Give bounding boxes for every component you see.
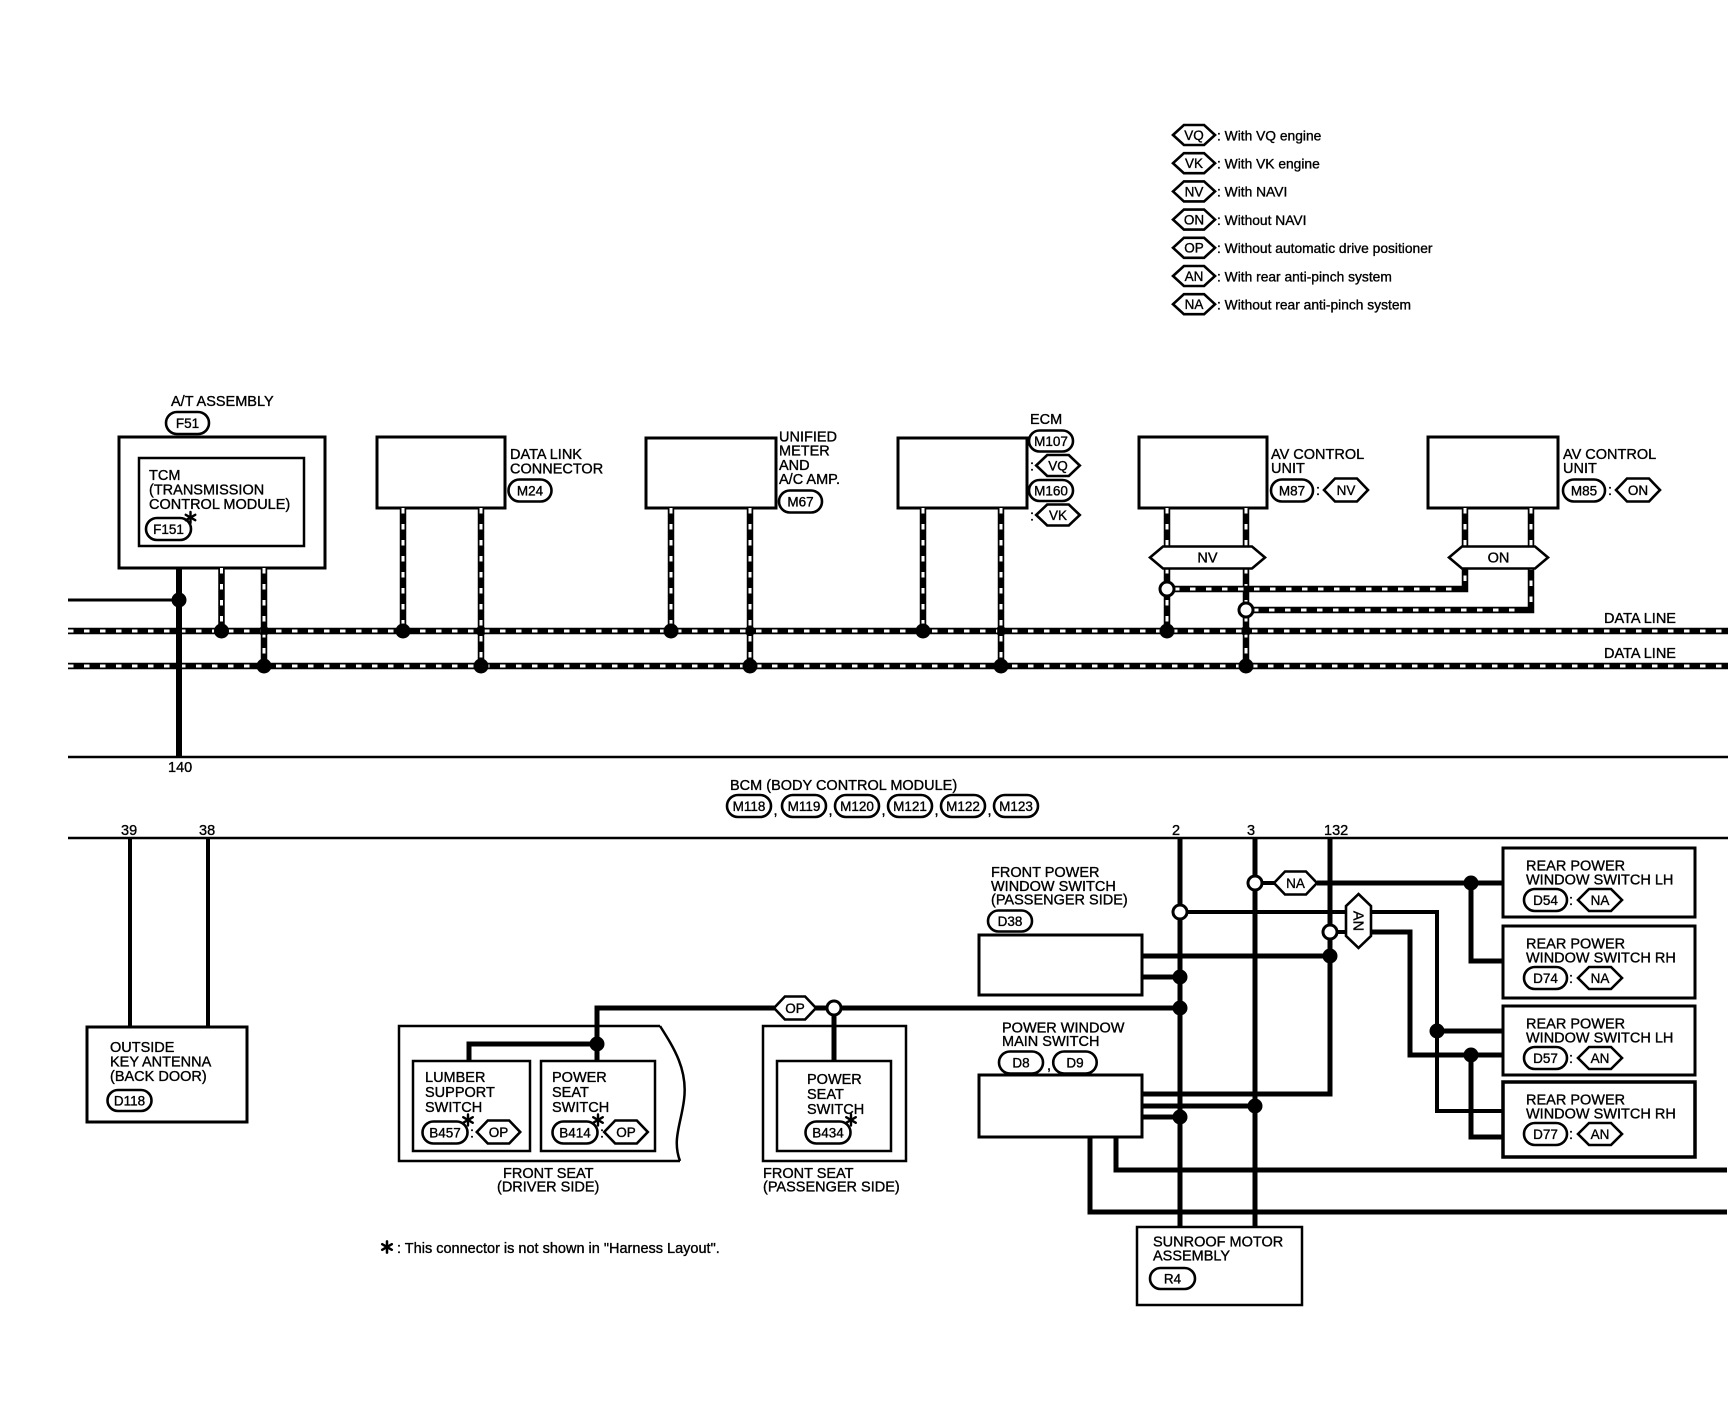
svg-text:F151: F151	[153, 522, 184, 537]
svg-text::: :	[1569, 1127, 1573, 1143]
svg-text::: :	[1608, 483, 1612, 499]
svg-text:2: 2	[1172, 823, 1180, 839]
module label BCM (BODY CONTROL MODULE) M118-M123	[727, 778, 1038, 819]
wire branch down to D74	[1471, 883, 1503, 961]
wire branch to AV unit M85 pin2 (shielded)	[1253, 568, 1531, 610]
wire TCM to DATA LINE 1 (shielded)	[218, 568, 225, 631]
svg-text:D74: D74	[1533, 971, 1558, 986]
component box UNIFIED METER AND A/C AMP M67	[646, 430, 840, 513]
DATA LINE 1 label	[1604, 611, 1676, 627]
svg-text:: With NAVI: : With NAVI	[1217, 185, 1287, 200]
svg-text:WINDOW SWITCH RH: WINDOW SWITCH RH	[1526, 1107, 1676, 1123]
junction D38 / pin 2 wire	[1173, 970, 1188, 985]
wire AV unit M87 pin2 to NV banner (shielded)	[1243, 508, 1250, 547]
wire D38 to pin 132	[1142, 954, 1330, 959]
node circle option split seat branch	[827, 1001, 841, 1015]
wire BCM pin 39 to antenna	[128, 838, 132, 1027]
wire AV unit M85 pin2 to ON banner (shielded)	[1528, 508, 1535, 547]
svg-text:,: ,	[935, 803, 939, 819]
wire BCM pin 38 to antenna	[206, 838, 210, 1027]
wire stub from left at node	[68, 599, 179, 602]
junction AV / DATA LINE 1	[1160, 624, 1175, 639]
svg-text:ECM: ECM	[1030, 412, 1062, 428]
svg-text::: :	[1030, 459, 1034, 475]
svg-text:M67: M67	[787, 494, 813, 509]
wire main switch to pin 2	[1142, 1115, 1180, 1120]
svg-text:D8: D8	[1012, 1055, 1029, 1070]
svg-text:NV: NV	[1185, 184, 1204, 199]
svg-text:M123: M123	[999, 799, 1033, 814]
svg-text:SWITCH: SWITCH	[425, 1100, 482, 1116]
svg-text:ASSEMBLY: ASSEMBLY	[1153, 1249, 1230, 1265]
svg-text:39: 39	[121, 823, 137, 839]
bus DATA LINE 1 (shielded twisted line)	[68, 628, 1728, 635]
wire BCM pin 2 to sunroof motor	[1178, 838, 1183, 1227]
junction ECM / DATA LINE 1	[916, 624, 931, 639]
option banner NV	[1150, 547, 1265, 569]
svg-text:,: ,	[988, 803, 992, 819]
svg-text:SEAT: SEAT	[552, 1085, 589, 1101]
svg-text:: Without automatic drive posi: : Without automatic drive positioner	[1217, 241, 1433, 256]
wire ECM to DATA LINE 2 (shielded)	[997, 508, 1005, 666]
svg-text:CONTROL MODULE): CONTROL MODULE)	[149, 497, 290, 513]
svg-text:CONNECTOR: CONNECTOR	[510, 462, 603, 478]
component box REAR POWER WINDOW SWITCH LH D54 (NA)	[1503, 848, 1695, 917]
svg-text:D118: D118	[114, 1093, 145, 1108]
component box POWER SEAT SWITCH B434 (passenger)	[777, 1061, 891, 1151]
option banner AN (vertical)	[1346, 894, 1371, 948]
junction TCM / DATA LINE 2	[257, 659, 272, 674]
module TCM (TRANSMISSION CONTROL MODULE) F151	[139, 458, 304, 546]
svg-text::: :	[470, 1126, 474, 1142]
svg-text:DATA LINE: DATA LINE	[1604, 611, 1676, 627]
svg-text:NV: NV	[1337, 483, 1356, 498]
wire AN banner to D57 lower	[1371, 932, 1503, 1055]
wire pin-132 branch to AN banner	[1337, 930, 1348, 934]
svg-text:POWER: POWER	[807, 1072, 862, 1088]
wire to lumber support switch	[469, 1044, 597, 1061]
svg-text:: With VQ engine: : With VQ engine	[1217, 128, 1322, 143]
component box LUMBER SUPPORT SWITCH B457	[413, 1061, 530, 1151]
wire main switch output lower-left	[1090, 1137, 1727, 1212]
wire NV banner to node circle 2 (shielded)	[1242, 568, 1250, 666]
svg-text:SWITCH: SWITCH	[552, 1100, 609, 1116]
svg-text:B457: B457	[429, 1125, 461, 1140]
svg-text:ON: ON	[1184, 212, 1204, 227]
junction node on pin-140 wire	[172, 593, 187, 608]
wire to power seat switch B414	[595, 1044, 600, 1061]
legend ON: Without NAVI	[1173, 210, 1306, 230]
wire D38 to pin 2	[1142, 975, 1180, 980]
component box DATA LINK CONNECTOR M24	[377, 437, 603, 508]
pin 3 label	[1247, 823, 1255, 839]
component box ECM M107/M160	[898, 412, 1080, 526]
component box POWER SEAT SWITCH B414 (driver)	[541, 1061, 655, 1151]
svg-text:D57: D57	[1533, 1051, 1558, 1066]
svg-text:AN: AN	[1350, 911, 1366, 931]
svg-text:R4: R4	[1164, 1271, 1182, 1286]
svg-text:: Without NAVI: : Without NAVI	[1217, 213, 1306, 228]
connector label A/T ASSEMBLY F51	[166, 394, 274, 434]
svg-text:WINDOW SWITCH LH: WINDOW SWITCH LH	[1526, 873, 1673, 889]
svg-text:AN: AN	[1185, 269, 1204, 284]
node circle option split pin 3	[1248, 876, 1262, 890]
node circle option split 2	[1239, 603, 1253, 617]
component box OUTSIDE KEY ANTENNA (BACK DOOR) D118	[87, 1027, 247, 1122]
svg-text:MAIN SWITCH: MAIN SWITCH	[1002, 1034, 1099, 1050]
legend NA: Without rear anti-pinch system	[1173, 294, 1411, 314]
svg-text:D38: D38	[998, 914, 1023, 929]
node circle option split pin 2	[1173, 905, 1187, 919]
wire DLC to DATA LINE 1 (shielded)	[400, 508, 407, 631]
svg-text:D54: D54	[1533, 893, 1558, 908]
junction main switch / pin 2 wire	[1173, 1110, 1188, 1125]
junction NA branch / D54	[1464, 876, 1479, 891]
component box REAR POWER WINDOW SWITCH RH D77 (AN)	[1503, 1082, 1695, 1157]
node circle option split pin 132	[1323, 925, 1337, 939]
svg-text:VK: VK	[1185, 156, 1203, 171]
svg-text::: :	[1030, 509, 1034, 525]
svg-text:M24: M24	[517, 483, 544, 498]
wire unified meter to DATA LINE 1 (shielded)	[668, 508, 675, 631]
svg-text:SUPPORT: SUPPORT	[425, 1085, 495, 1101]
svg-text:38: 38	[199, 823, 215, 839]
component box A/T ASSEMBLY	[119, 437, 325, 568]
wire TCM to DATA LINE 2 (shielded)	[260, 568, 268, 666]
wire main switch to pin 3	[1142, 1104, 1255, 1109]
node circle option split 1	[1160, 582, 1174, 596]
component box front power window switch D38	[979, 935, 1142, 995]
svg-text:POWER: POWER	[552, 1070, 607, 1086]
wire AV unit M85 pin1 to ON banner (shielded)	[1462, 508, 1469, 547]
svg-text:M107: M107	[1034, 434, 1068, 449]
component box power window main switch	[979, 1075, 1142, 1137]
svg-text::: :	[600, 1126, 604, 1142]
junction ECM / DATA LINE 2	[994, 659, 1009, 674]
svg-text:NV: NV	[1197, 550, 1217, 566]
svg-text:: With rear anti-pinch system: : With rear anti-pinch system	[1217, 269, 1392, 284]
svg-text:M122: M122	[946, 799, 980, 814]
svg-text:: Without rear anti-pinch syst: : Without rear anti-pinch system	[1217, 298, 1411, 313]
junction unified meter / DATA LINE 2	[743, 659, 758, 674]
junction main switch / pin 3 wire	[1248, 1099, 1263, 1114]
svg-text:A/T ASSEMBLY: A/T ASSEMBLY	[171, 394, 274, 410]
svg-text:OP: OP	[616, 1125, 636, 1140]
junction AV / DATA LINE 2	[1239, 659, 1254, 674]
svg-text:ON: ON	[1488, 550, 1510, 566]
footnote: connector not shown in harness layout	[382, 1241, 720, 1257]
svg-text:M120: M120	[840, 799, 874, 814]
svg-text:(DRIVER SIDE): (DRIVER SIDE)	[497, 1180, 599, 1196]
connector label POWER WINDOW MAIN SWITCH D8 D9	[999, 1021, 1125, 1075]
junction branch / D57 upper	[1430, 1024, 1445, 1039]
wire main switch output lower-right	[1116, 1137, 1727, 1170]
svg-text:WINDOW SWITCH RH: WINDOW SWITCH RH	[1526, 951, 1676, 967]
svg-text:BCM (BODY CONTROL MODULE): BCM (BODY CONTROL MODULE)	[730, 778, 957, 794]
junction DLC / DATA LINE 2	[474, 659, 489, 674]
svg-text::: :	[1569, 893, 1573, 909]
option hexagon OP on seat branch	[774, 997, 816, 1020]
component box REAR POWER WINDOW SWITCH LH D57 (AN)	[1503, 1006, 1695, 1075]
bus DATA LINE 2 (shielded twisted line)	[68, 663, 1728, 670]
svg-text:(PASSENGER SIDE): (PASSENGER SIDE)	[763, 1180, 900, 1196]
svg-text:NA: NA	[1185, 297, 1204, 312]
caption FRONT SEAT (PASSENGER SIDE)	[763, 1166, 900, 1196]
svg-text:M85: M85	[1571, 483, 1597, 498]
assembly outline FRONT SEAT (DRIVER SIDE) with tear line	[399, 1026, 685, 1161]
svg-text:ON: ON	[1628, 483, 1648, 498]
svg-text:SEAT: SEAT	[807, 1087, 844, 1103]
svg-text:OP: OP	[785, 1001, 805, 1016]
svg-text:D77: D77	[1533, 1127, 1558, 1142]
svg-text:AN: AN	[1591, 1051, 1610, 1066]
svg-text::: :	[1569, 1051, 1573, 1067]
junction TCM / DATA LINE 1	[214, 624, 229, 639]
svg-text:DATA LINE: DATA LINE	[1604, 646, 1676, 662]
svg-text:3: 3	[1247, 823, 1255, 839]
svg-text::: :	[1316, 483, 1320, 499]
DATA LINE 2 label	[1604, 646, 1676, 662]
connector label FRONT POWER WINDOW SWITCH (PASSENGER SIDE) D38	[988, 865, 1128, 932]
wire to power seat switch B434	[832, 1015, 837, 1061]
svg-text:LUMBER: LUMBER	[425, 1070, 485, 1086]
svg-text:AN: AN	[1591, 1127, 1610, 1142]
svg-text:UNIT: UNIT	[1563, 461, 1597, 477]
option banner ON	[1449, 547, 1548, 569]
option hexagon NA on pin-3 branch	[1274, 872, 1317, 895]
junction DLC / DATA LINE 1	[396, 624, 411, 639]
svg-text:D9: D9	[1066, 1055, 1083, 1070]
wire AV unit M87 pin1 to NV banner (shielded)	[1164, 508, 1171, 547]
svg-text:M87: M87	[1279, 483, 1305, 498]
svg-text:M121: M121	[893, 799, 927, 814]
svg-text:NA: NA	[1286, 876, 1305, 891]
junction unified meter / DATA LINE 1	[664, 624, 679, 639]
svg-text:140: 140	[168, 760, 192, 776]
component box AV CONTROL UNIT M85 (without NAVI)	[1428, 437, 1660, 508]
svg-text:NA: NA	[1591, 893, 1610, 908]
svg-text:,: ,	[774, 803, 778, 819]
wire pin-2 option branch to D57/D77 (AN)	[1187, 912, 1503, 1111]
svg-text::: :	[1569, 971, 1573, 987]
wire BCM pin 3 to sunroof motor	[1253, 838, 1258, 1227]
junction seat branch / pin 2 wire	[1173, 1001, 1188, 1016]
svg-text:(PASSENGER SIDE): (PASSENGER SIDE)	[991, 893, 1128, 909]
svg-text:B434: B434	[812, 1125, 844, 1140]
svg-text:A/C AMP.: A/C AMP.	[779, 472, 840, 488]
svg-text:: This connector is not shown: : This connector is not shown in "Harnes…	[397, 1241, 720, 1257]
wire ECM to DATA LINE 1 (shielded)	[920, 508, 927, 631]
wire unified meter to DATA LINE 2 (shielded)	[746, 508, 754, 666]
legend OP: Without automatic drive positioner	[1173, 238, 1433, 258]
wire BCM pin 132 to power window main switch	[1142, 838, 1330, 1094]
svg-text:NA: NA	[1591, 971, 1610, 986]
svg-text:OP: OP	[489, 1125, 509, 1140]
BCM top rail	[68, 756, 1728, 759]
svg-text:,: ,	[1047, 1058, 1051, 1074]
legend VQ: With VQ engine	[1173, 125, 1322, 145]
svg-text:: With VK engine: : With VK engine	[1217, 157, 1320, 172]
svg-text:VQ: VQ	[1184, 128, 1204, 143]
wire pin-3 branch to NA hexagon	[1262, 881, 1276, 885]
svg-text:(BACK DOOR): (BACK DOOR)	[110, 1069, 207, 1085]
svg-text:B414: B414	[559, 1125, 591, 1140]
legend NV: With NAVI	[1173, 181, 1287, 201]
wire BCM pin 140 to TCM (solid)	[176, 568, 182, 757]
wire power seat branch (OP) to pin 2	[597, 1008, 1180, 1044]
BCM bottom rail	[68, 837, 1728, 840]
pin 38 label	[199, 823, 215, 839]
legend AN: With rear anti-pinch system	[1173, 266, 1392, 286]
pin 2 label	[1172, 823, 1180, 839]
svg-text:,: ,	[882, 803, 886, 819]
assembly outline FRONT SEAT (PASSENGER SIDE)	[763, 1026, 906, 1161]
legend VK: With VK engine	[1173, 153, 1320, 173]
caption FRONT SEAT (DRIVER SIDE)	[497, 1166, 599, 1196]
wire branch to AV unit M85 pin1 (shielded)	[1174, 568, 1465, 589]
wire branch down to D77 lower	[1471, 1055, 1503, 1137]
svg-text:VK: VK	[1049, 508, 1067, 523]
pin 140 label	[168, 760, 192, 776]
component box AV CONTROL UNIT M87 (with NAVI)	[1139, 437, 1368, 508]
junction driver-seat branch	[590, 1037, 605, 1052]
component box REAR POWER WINDOW SWITCH RH D74 (NA)	[1503, 926, 1695, 998]
wire NV banner to node circle 1 (shielded)	[1164, 568, 1171, 631]
junction AN branch / D57 lower	[1464, 1048, 1479, 1063]
svg-text:F51: F51	[176, 416, 199, 431]
svg-text:OP: OP	[1184, 241, 1204, 256]
svg-text:UNIT: UNIT	[1271, 461, 1305, 477]
pin 39 label	[121, 823, 137, 839]
pin 132 label	[1324, 823, 1348, 839]
svg-text:SWITCH: SWITCH	[807, 1102, 864, 1118]
junction D38 / pin 132 wire	[1323, 949, 1338, 964]
svg-text:M118: M118	[733, 799, 766, 814]
svg-text:132: 132	[1324, 823, 1348, 839]
component box SUNROOF MOTOR ASSEMBLY R4	[1137, 1227, 1302, 1305]
svg-text:DATA LINK: DATA LINK	[510, 447, 582, 463]
svg-text:M119: M119	[788, 799, 821, 814]
svg-text:,: ,	[829, 803, 833, 819]
svg-text:VQ: VQ	[1048, 458, 1068, 473]
svg-text:M160: M160	[1034, 483, 1068, 498]
wire NA hexagon to D54	[1317, 881, 1503, 886]
svg-text:WINDOW SWITCH LH: WINDOW SWITCH LH	[1526, 1031, 1673, 1047]
wire DLC to DATA LINE 2 (shielded)	[477, 508, 485, 666]
